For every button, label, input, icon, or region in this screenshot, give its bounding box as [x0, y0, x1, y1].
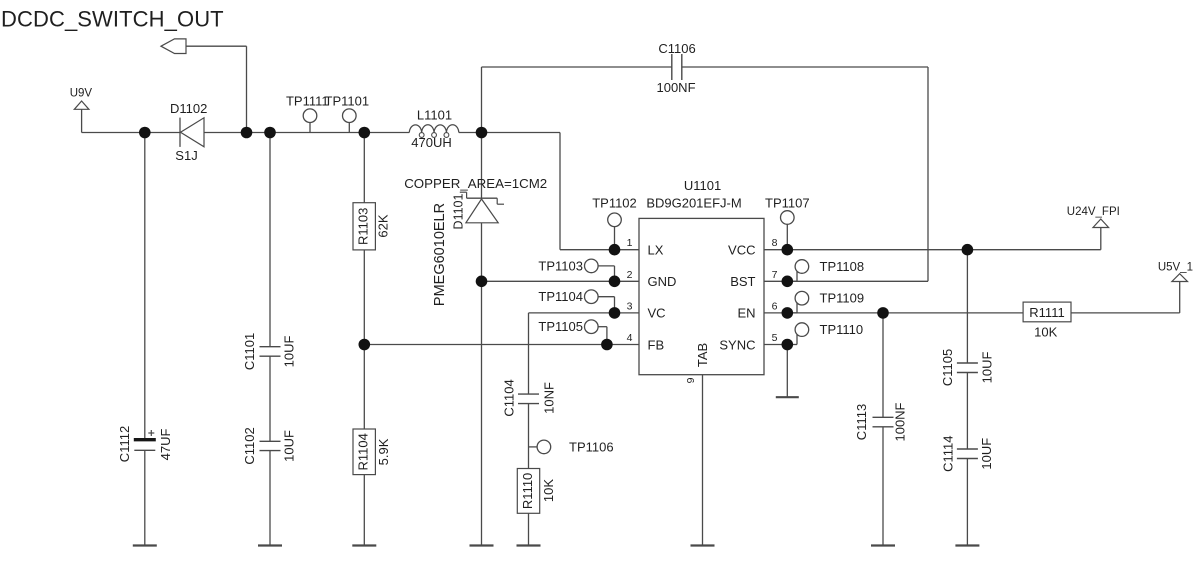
svg-text:TP1110: TP1110 [820, 322, 864, 337]
svg-text:SYNC: SYNC [719, 337, 755, 352]
svg-text:D1101: D1101 [452, 194, 466, 230]
svg-text:C1106: C1106 [658, 41, 695, 56]
svg-text:GND: GND [648, 274, 677, 289]
svg-text:10UF: 10UF [980, 352, 995, 384]
svg-text:10UF: 10UF [282, 336, 297, 368]
svg-text:10NF: 10NF [542, 382, 557, 414]
svg-text:PMEG6010ELR: PMEG6010ELR [432, 203, 448, 306]
svg-text:R1110: R1110 [520, 473, 535, 509]
svg-text:BST: BST [730, 274, 755, 289]
svg-text:U1101: U1101 [684, 178, 721, 193]
svg-text:4: 4 [627, 332, 633, 344]
svg-text:TP1106: TP1106 [569, 440, 614, 455]
svg-text:VCC: VCC [728, 243, 755, 258]
svg-text:D1102: D1102 [170, 101, 207, 116]
svg-text:TP1103: TP1103 [538, 258, 583, 273]
svg-text:5: 5 [772, 332, 778, 344]
svg-text:LX: LX [648, 243, 664, 258]
svg-text:10UF: 10UF [979, 438, 994, 470]
svg-text:TP1102: TP1102 [592, 196, 637, 211]
svg-text:VC: VC [648, 306, 666, 321]
svg-text:100NF: 100NF [893, 402, 908, 441]
svg-text:5.9K: 5.9K [376, 438, 391, 465]
svg-text:U5V_1: U5V_1 [1158, 261, 1193, 273]
svg-text:L1101: L1101 [417, 107, 452, 122]
svg-text:1: 1 [627, 237, 633, 249]
svg-text:TP1109: TP1109 [820, 291, 865, 306]
svg-text:C1101: C1101 [242, 333, 257, 370]
svg-text:DCDC_SWITCH_OUT: DCDC_SWITCH_OUT [1, 7, 224, 32]
svg-text:10UF: 10UF [282, 430, 297, 462]
svg-text:62K: 62K [375, 214, 390, 237]
svg-text:47UF: 47UF [158, 429, 173, 461]
svg-text:10K: 10K [1034, 325, 1057, 340]
svg-text:U24V_FPI: U24V_FPI [1067, 206, 1120, 218]
svg-text:COPPER_AREA=1CM2: COPPER_AREA=1CM2 [404, 176, 547, 191]
svg-text:R1111: R1111 [1029, 305, 1064, 320]
svg-text:C1102: C1102 [242, 427, 257, 464]
svg-text:FB: FB [648, 337, 665, 352]
svg-text:2: 2 [627, 269, 633, 281]
svg-text:R1104: R1104 [356, 433, 371, 470]
svg-text:C1105: C1105 [940, 349, 955, 386]
svg-text:TP1107: TP1107 [765, 196, 810, 211]
svg-text:470UH: 470UH [411, 135, 451, 150]
svg-text:100NF: 100NF [656, 80, 695, 95]
svg-text:C1113: C1113 [854, 404, 869, 440]
svg-text:R1103: R1103 [356, 208, 371, 245]
svg-text:TAB: TAB [695, 343, 710, 367]
svg-text:TP1108: TP1108 [820, 259, 865, 274]
svg-text:BD9G201EFJ-M: BD9G201EFJ-M [646, 196, 741, 211]
svg-text:EN: EN [737, 306, 755, 321]
svg-text:TP1101: TP1101 [325, 94, 370, 109]
svg-text:C1104: C1104 [502, 379, 517, 416]
svg-text:TP1105: TP1105 [538, 319, 583, 334]
svg-text:TP1104: TP1104 [538, 289, 583, 304]
svg-text:6: 6 [772, 300, 778, 312]
svg-text:10K: 10K [541, 479, 556, 502]
svg-text:8: 8 [772, 237, 778, 249]
svg-text:S1J: S1J [175, 148, 197, 163]
svg-text:TP1111: TP1111 [286, 94, 329, 109]
svg-text:7: 7 [772, 269, 778, 281]
svg-text:C1114: C1114 [941, 436, 956, 472]
svg-text:3: 3 [627, 300, 633, 312]
svg-text:9: 9 [685, 377, 697, 383]
svg-text:U9V: U9V [70, 88, 93, 100]
svg-text:C1112: C1112 [117, 426, 132, 462]
